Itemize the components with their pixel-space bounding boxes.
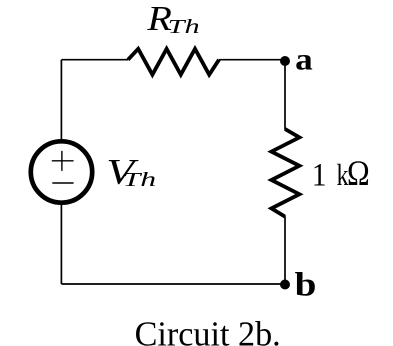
- svg-text:a: a: [295, 41, 313, 76]
- svg-text:b: b: [295, 267, 317, 304]
- svg-text:Circuit 2b.: Circuit 2b.: [135, 314, 281, 346]
- svg-text:Th: Th: [123, 169, 157, 191]
- svg-text:Ω: Ω: [347, 153, 370, 193]
- svg-text:Th: Th: [168, 16, 200, 38]
- svg-text:1: 1: [312, 157, 327, 193]
